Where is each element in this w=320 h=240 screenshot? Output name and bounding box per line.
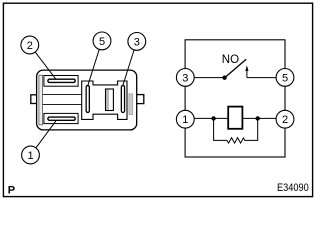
svg-text:2: 2 [282,114,288,126]
svg-text:5: 5 [99,36,105,48]
svg-text:5: 5 [282,72,288,84]
svg-text:1: 1 [182,114,188,126]
svg-text:3: 3 [134,36,140,48]
svg-text:1: 1 [27,150,33,162]
svg-text:E34090: E34090 [277,182,309,194]
svg-text:NO: NO [222,54,239,66]
svg-text:2: 2 [27,40,33,52]
svg-text:P: P [8,185,15,197]
svg-text:3: 3 [182,72,188,84]
